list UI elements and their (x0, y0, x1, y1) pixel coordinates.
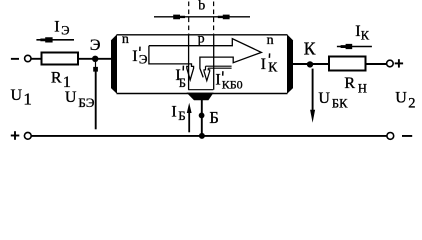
dashed boundary right (213, 2, 215, 35)
svg-text:1: 1 (23, 90, 32, 109)
structure box top edge (117, 34, 288, 36)
IКБ0 arrow filled tip (206, 79, 208, 82)
terminal circle left top (25, 55, 31, 61)
svg-text:U: U (395, 89, 407, 106)
svg-text:I: I (215, 72, 220, 89)
svg-text:U: U (318, 90, 330, 107)
terminal plus right (395, 62, 403, 64)
base contact pad (187, 93, 214, 101)
svg-text:I: I (171, 104, 176, 121)
svg-text:КБ0: КБ0 (222, 78, 243, 92)
svg-text:Б: Б (209, 108, 218, 127)
svg-text:I: I (261, 56, 266, 73)
current arrow IК (337, 46, 372, 48)
base width dimension line (154, 16, 250, 18)
dimension arrowhead left-pointing (218, 15, 230, 20)
terminal circle right top (387, 60, 394, 67)
wire (367, 63, 387, 65)
resistor R1 (42, 53, 79, 65)
svg-text:Э: Э (61, 24, 69, 38)
svg-text:p: p (198, 31, 205, 46)
svg-text:БЭ: БЭ (78, 95, 94, 110)
svg-text:К: К (361, 28, 370, 42)
dashed boundary left (188, 2, 190, 35)
terminal plus bottom left (11, 135, 19, 137)
reverse current IКБ0 channel (206, 66, 232, 68)
bottom wire (31, 135, 386, 137)
terminal minus right (402, 135, 412, 137)
dimension arrowhead right-pointing (173, 15, 185, 20)
node base terminal (199, 113, 205, 119)
resistor Rн (329, 57, 366, 71)
wire (79, 58, 112, 60)
wire (31, 58, 41, 60)
current arrow IЭ (36, 39, 74, 41)
svg-text:n: n (267, 33, 274, 48)
structure left contact bar (111, 34, 117, 94)
svg-text:Э: Э (90, 37, 101, 54)
svg-text:Б: Б (179, 76, 186, 90)
svg-text:I: I (355, 23, 360, 40)
svg-text:R: R (344, 75, 355, 92)
svg-text:U: U (11, 87, 23, 104)
svg-text:К: К (268, 60, 278, 75)
svg-text:U: U (65, 89, 77, 106)
structure right contact bar (287, 34, 293, 94)
junction line emitter-base (188, 35, 190, 90)
junction line base-collector (213, 35, 215, 90)
node Э (92, 56, 98, 62)
svg-text:b: b (198, 0, 205, 14)
current arrow IБ (188, 113, 190, 133)
svg-text:I: I (132, 48, 137, 65)
base lead (201, 100, 203, 136)
voltage arrow UБЭ (95, 70, 97, 130)
svg-text:Б: Б (178, 108, 185, 123)
svg-text:n: n (122, 32, 129, 47)
svg-text:БК: БК (332, 97, 348, 111)
big electron flow arrow IЭ' to IК' (149, 39, 262, 80)
terminal circle bottom left (24, 132, 31, 139)
node bottom junction (199, 133, 205, 139)
svg-text:R: R (51, 69, 62, 86)
svg-text:Н: Н (358, 82, 367, 96)
structure box bottom edge (117, 93, 288, 95)
svg-text:2: 2 (408, 96, 415, 112)
terminal minus left (11, 58, 19, 60)
reverse current IКБ0 arrow (204, 66, 210, 81)
terminal circle bottom right (387, 133, 394, 140)
svg-text:К: К (304, 39, 316, 59)
svg-text:I: I (54, 19, 59, 36)
voltage arrow UБК (312, 69, 314, 111)
recombination arrow IБ' filled tip (189, 78, 191, 81)
svg-text:Э: Э (139, 51, 148, 66)
base contact line (188, 89, 213, 91)
node К (307, 61, 313, 67)
wire collector lead (293, 63, 330, 65)
